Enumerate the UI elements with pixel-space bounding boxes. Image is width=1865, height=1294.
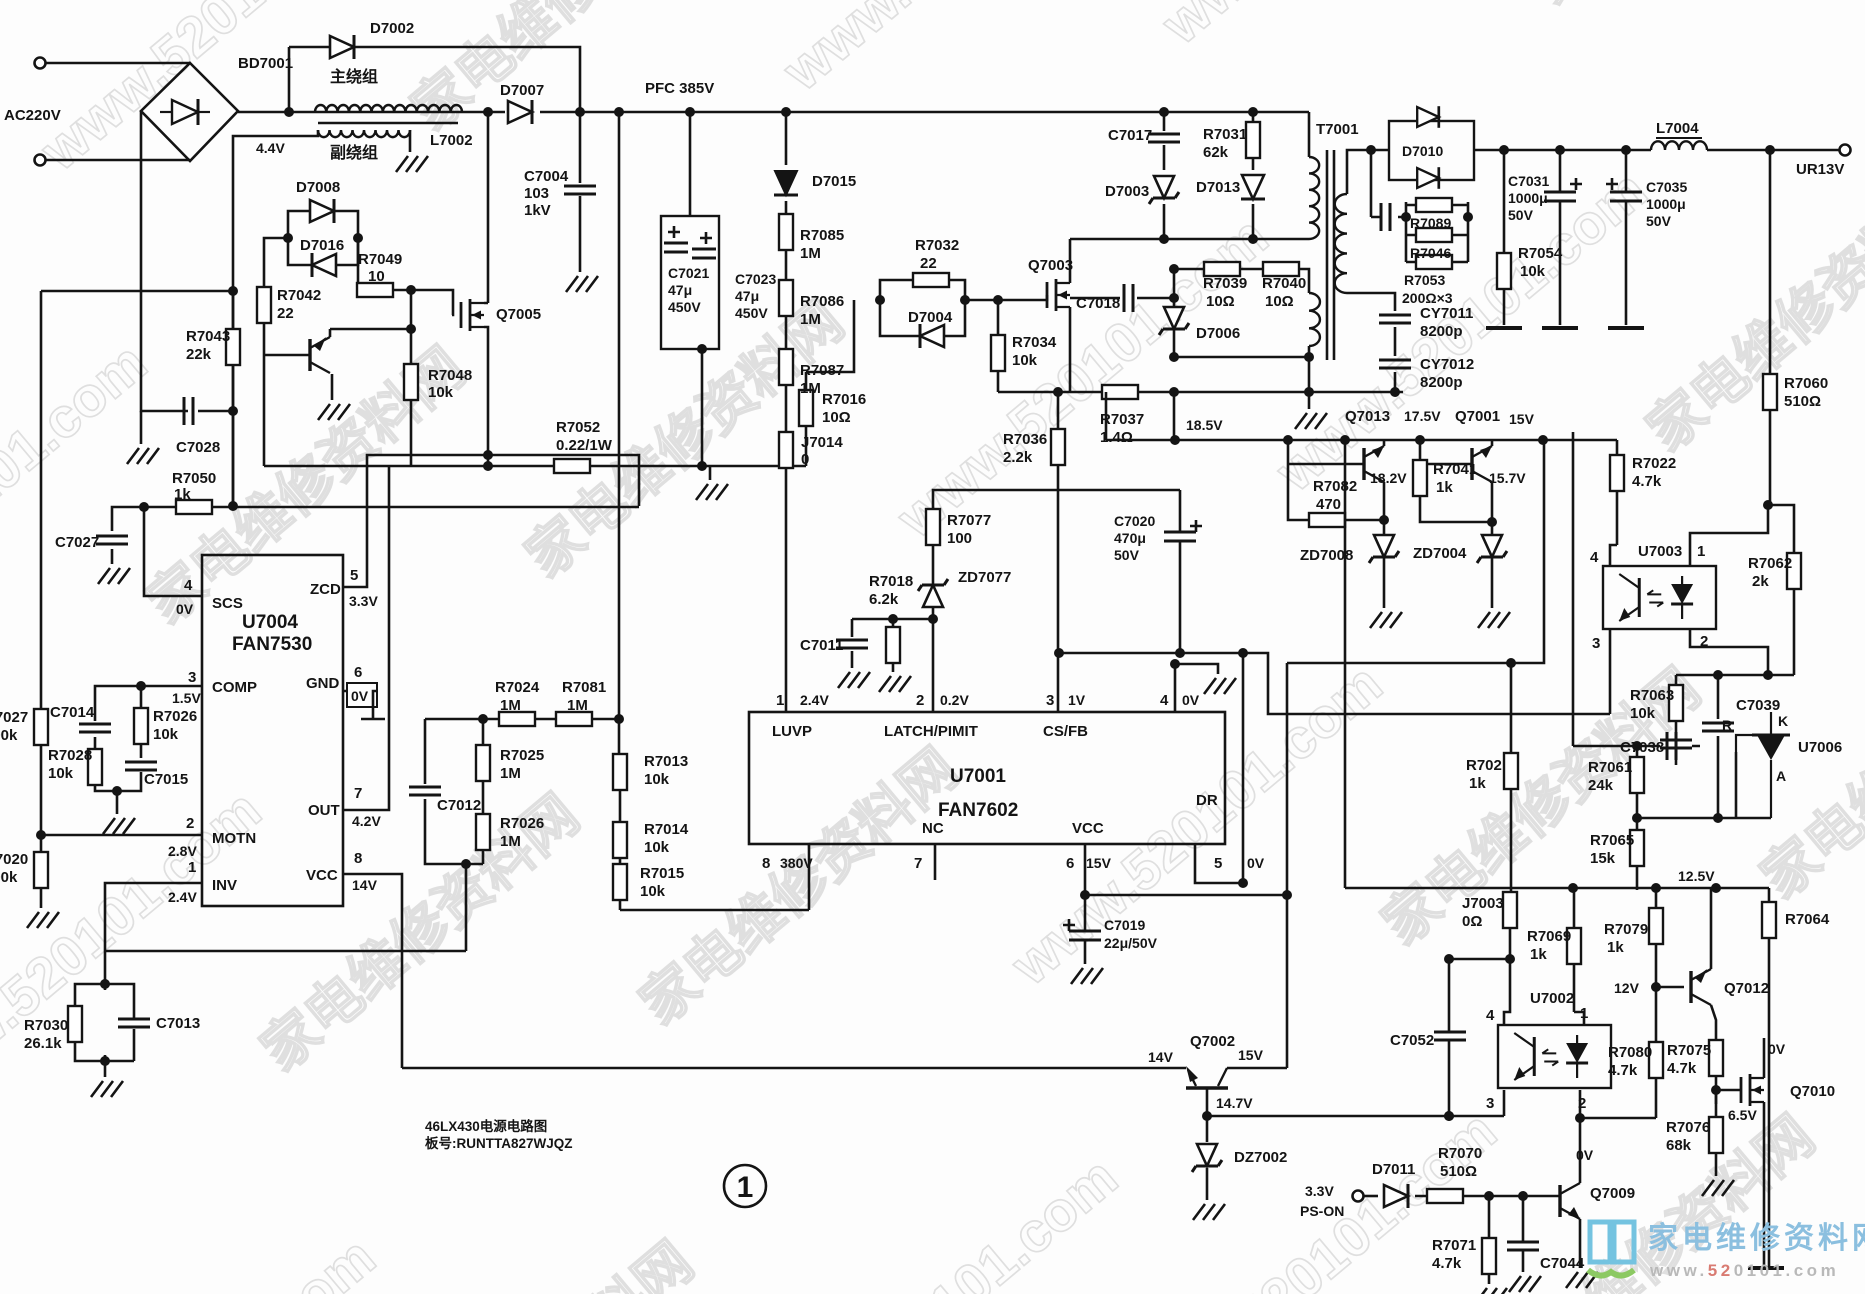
wire left node to R7042 (264, 238, 288, 287)
svg-text:C7017: C7017 (1108, 127, 1152, 144)
svg-text:NC: NC (922, 820, 944, 837)
pin 3 COMP wire (138, 685, 202, 688)
resistor R7041 (1413, 460, 1427, 496)
svg-text:62k: 62k (1203, 144, 1229, 161)
svg-text:4.7k: 4.7k (1667, 1060, 1697, 1077)
svg-text:www.520101.com: www.520101.com (1649, 1261, 1839, 1280)
svg-text:R7085: R7085 (800, 227, 844, 244)
svg-text:C7013: C7013 (156, 1015, 200, 1032)
svg-text:47μ: 47μ (735, 288, 759, 304)
svg-text:DR: DR (1196, 792, 1218, 809)
svg-text:1k: 1k (1607, 939, 1624, 956)
ground C7004 (566, 276, 598, 292)
resistor R7026b (476, 814, 490, 850)
zener ZD7008 (1369, 535, 1399, 563)
wire ZCD path (343, 455, 639, 587)
resistor R7015 (613, 864, 627, 900)
pin 4 stub (180, 595, 202, 598)
resistor R7027 (34, 709, 48, 745)
svg-text:14V: 14V (1148, 1049, 1174, 1065)
svg-text:2: 2 (1578, 1095, 1586, 1112)
svg-text:D7013: D7013 (1196, 179, 1240, 196)
svg-text:Q7003: Q7003 (1028, 257, 1073, 274)
svg-text:板号:RUNTTA827WJQZ: 板号:RUNTTA827WJQZ (425, 1135, 573, 1151)
resistor R7052 (554, 459, 590, 473)
svg-text:17.5V: 17.5V (1404, 408, 1441, 424)
svg-text:R7052: R7052 (556, 419, 600, 436)
svg-text:C7044: C7044 (1540, 1255, 1585, 1272)
svg-text:10k: 10k (48, 765, 74, 782)
svg-text:R7071: R7071 (1432, 1237, 1476, 1254)
svg-text:10k: 10k (644, 839, 670, 856)
svg-text:12.5V: 12.5V (1678, 868, 1715, 884)
svg-text:2: 2 (186, 815, 194, 832)
wire R7075 branch (1715, 1076, 1718, 1104)
label L7004 underline (1656, 137, 1702, 139)
svg-text:0V: 0V (1182, 692, 1200, 708)
resistor R7024 (499, 712, 535, 726)
zener DZ7002 (1192, 1144, 1222, 1172)
capacitor C7039 (1702, 723, 1734, 731)
junction comp node (136, 681, 146, 691)
svg-text:C7023: C7023 (735, 271, 776, 287)
svg-text:CY7011: CY7011 (1420, 305, 1473, 322)
wire gate node down R7048 (410, 290, 413, 364)
svg-text:R7076: R7076 (1666, 1119, 1710, 1136)
svg-text:2.8V: 2.8V (168, 843, 197, 859)
svg-text:0V: 0V (351, 688, 369, 704)
svg-text:VCC: VCC (306, 867, 338, 884)
capacitor C7038 (1660, 740, 1692, 748)
wire left col to ground (140, 411, 143, 444)
diode D7015 zener (774, 171, 798, 195)
ground left column bottom (27, 912, 59, 928)
transistor Q7002 (1186, 1086, 1228, 1089)
MOSFET Q7005 (461, 299, 484, 331)
wire pin3 chain (1059, 653, 1610, 714)
wire R7039 R7040 line (1174, 269, 1309, 293)
svg-text:1: 1 (776, 692, 784, 709)
svg-text:PFC 385V: PFC 385V (645, 80, 714, 97)
svg-text:R7049: R7049 (358, 251, 402, 268)
AC input terminal N (35, 155, 46, 166)
svg-text:J7003: J7003 (1462, 895, 1504, 912)
wire AC L to bridge (46, 62, 190, 65)
wire Q7010 source (1763, 1102, 1766, 1268)
wire aux winding right to ground (409, 130, 412, 152)
wire aux winding left to 4.4V line (233, 130, 318, 506)
resistor R7032 (913, 273, 949, 287)
capacitor C7011 (836, 640, 868, 648)
ground left column (127, 448, 159, 464)
wire pin2 node net (852, 619, 933, 672)
svg-text:1: 1 (737, 1171, 754, 1204)
svg-text:D7008: D7008 (296, 179, 340, 196)
svg-text:C7028: C7028 (176, 439, 220, 456)
svg-text:ZD7004: ZD7004 (1413, 545, 1467, 562)
svg-text:D7002: D7002 (370, 20, 414, 37)
svg-text:8: 8 (354, 850, 362, 867)
diode D7010 lower (1417, 167, 1439, 189)
wire J7003 branch (1504, 928, 1510, 1025)
wire L7002 separator (318, 122, 458, 125)
svg-text:2: 2 (916, 692, 924, 709)
wire startup base (264, 354, 310, 357)
capacitor C7012 (409, 787, 441, 795)
wire C7044 branch (1522, 1196, 1525, 1272)
resistor R7064 (1762, 902, 1776, 938)
junction C7012 bottom (461, 859, 471, 869)
junction secondary top (1366, 145, 1376, 155)
junction pin6 (1080, 890, 1090, 900)
ground DZ7002 (1193, 1204, 1225, 1220)
svg-text:1M: 1M (567, 697, 588, 714)
svg-text:D7016: D7016 (300, 237, 344, 254)
svg-text:Q7013: Q7013 (1345, 408, 1390, 425)
pin 6 gnd stub (343, 691, 385, 719)
svg-text:3: 3 (188, 669, 196, 686)
svg-text:R7024: R7024 (495, 679, 540, 696)
wire D7015 chain (785, 112, 788, 712)
wire U7002 pin3 (1503, 1090, 1506, 1116)
resistor R7082 (1309, 513, 1345, 527)
wire Q7005 drain (484, 112, 488, 303)
wire R7031 branch (1252, 112, 1255, 239)
svg-text:C7027: C7027 (55, 534, 99, 551)
svg-text:6.2k: 6.2k (869, 591, 899, 608)
pin 8 VCC wire (343, 874, 402, 1068)
svg-text:1M: 1M (500, 697, 521, 714)
wire startup collector down (331, 374, 334, 400)
svg-text:R7013: R7013 (644, 753, 688, 770)
wire C7021 box feed (689, 112, 692, 216)
svg-text:2k: 2k (1752, 573, 1769, 590)
svg-text:1.5V: 1.5V (172, 690, 201, 706)
svg-text:LATCH/PIMIT: LATCH/PIMIT (884, 723, 978, 740)
pin 1 INV wire (105, 883, 202, 984)
wire AC N to bridge (46, 159, 190, 162)
wire R7032 D7004 box (880, 280, 1040, 336)
wire Q7009 base line (1415, 1195, 1560, 1198)
resistor R7034 (991, 335, 1005, 371)
svg-text:1: 1 (1580, 1005, 1588, 1022)
svg-text:R7015: R7015 (640, 865, 684, 882)
svg-text:2.4V: 2.4V (800, 692, 829, 708)
svg-text:8200p: 8200p (1420, 374, 1463, 391)
junction aux bottom (1304, 352, 1314, 362)
svg-text:A: A (1776, 768, 1786, 784)
svg-text:R7063: R7063 (1630, 687, 1674, 704)
svg-text:10k: 10k (640, 883, 666, 900)
zener ZD7004 (1477, 535, 1507, 563)
svg-text:C7012: C7012 (437, 797, 481, 814)
svg-text:100k: 100k (0, 869, 18, 886)
junction pin2 node (928, 614, 938, 624)
svg-text:U7002: U7002 (1530, 990, 1574, 1007)
svg-text:1k: 1k (1469, 775, 1486, 792)
svg-text:R7026: R7026 (500, 815, 544, 832)
svg-text:1: 1 (1697, 543, 1705, 560)
wire R7062 branch (1676, 505, 1794, 675)
resistor R7037 (1102, 385, 1138, 399)
wire R7060 branch (1769, 150, 1772, 505)
wire bottom loop y357 (1174, 356, 1309, 359)
junction bus dots (1053, 387, 1063, 397)
wire pin8 stub (808, 844, 811, 910)
junction J7003 node (1505, 954, 1515, 964)
svg-text:10k: 10k (1520, 263, 1546, 280)
capacitor C7015 (125, 762, 157, 770)
svg-text:4.7k: 4.7k (1432, 1255, 1462, 1272)
wire C7020 branch (1179, 490, 1182, 653)
svg-text:R7016: R7016 (822, 391, 866, 408)
svg-text:5: 5 (1214, 855, 1222, 872)
junction pin3 dots (1054, 648, 1064, 658)
ground C7044 (1509, 1276, 1541, 1292)
wire to ground under C7013 (104, 1061, 107, 1077)
wire 12V line (1656, 986, 1684, 989)
resistor R7030 (68, 1006, 82, 1042)
bridge rectifier BD7001 (141, 63, 238, 161)
wire pin6 chain (1085, 844, 1287, 964)
resistor R7075 (1709, 1040, 1723, 1076)
junction gate node (1711, 1085, 1721, 1095)
svg-text:1000μ: 1000μ (1508, 190, 1548, 206)
wire Q7009 emitter (1579, 1219, 1582, 1268)
ground C7019 (1071, 968, 1103, 984)
svg-text:SCS: SCS (212, 595, 243, 612)
svg-text:R7046: R7046 (1410, 245, 1451, 261)
svg-text:D7006: D7006 (1196, 325, 1240, 342)
svg-text:12V: 12V (1614, 980, 1640, 996)
wire snubber bus y392 (998, 391, 1403, 394)
svg-text:ZD7008: ZD7008 (1300, 547, 1353, 564)
svg-text:Q7001: Q7001 (1455, 408, 1500, 425)
wire Q7013 base wire (1288, 463, 1364, 466)
wire Q7005 source (484, 327, 488, 466)
cold ground C7035 (1608, 327, 1644, 329)
wire R7036 branch (1057, 392, 1060, 712)
diode D7010 upper (1417, 106, 1439, 128)
svg-text:47μ: 47μ (668, 282, 692, 298)
ground C7027 (98, 568, 130, 584)
svg-text:R7027: R7027 (0, 709, 28, 726)
transformer T7001 primary (1309, 157, 1319, 239)
svg-text:18.2V: 18.2V (1370, 470, 1407, 486)
wire y663 link (1287, 440, 1544, 663)
svg-text:PS-ON: PS-ON (1300, 1203, 1344, 1219)
junction y1118 (1575, 1113, 1585, 1123)
wire R7048 bottom (410, 400, 413, 466)
wire horizontal feed y=291 (41, 290, 233, 293)
svg-text:4: 4 (1590, 549, 1599, 566)
svg-text:8: 8 (762, 855, 770, 872)
svg-text:46LX430电源电路图: 46LX430电源电路图 (425, 1118, 547, 1134)
svg-text:R7037: R7037 (1100, 411, 1144, 428)
svg-text:200Ω×3: 200Ω×3 (1402, 290, 1453, 306)
resistor R7085 (779, 214, 793, 250)
svg-text:R7048: R7048 (428, 367, 472, 384)
wire ZD7008 (1383, 520, 1386, 608)
svg-text:C7035: C7035 (1646, 179, 1687, 195)
wire C7039 branch (1717, 675, 1720, 818)
junction 675 line (1713, 670, 1723, 680)
svg-text:OUT: OUT (308, 802, 340, 819)
rail dots (1170, 435, 1180, 445)
wire pin4 stub (1175, 664, 1218, 712)
wire U7002 pin2 (1579, 1090, 1582, 1118)
svg-text:10k: 10k (153, 726, 179, 743)
svg-text:主绕组: 主绕组 (330, 67, 378, 86)
wire R7049 branch (357, 238, 360, 290)
svg-text:24k: 24k (1588, 777, 1614, 794)
svg-text:10k: 10k (644, 771, 670, 788)
pin 6 0V box (347, 683, 377, 707)
AC input terminal L (35, 58, 46, 69)
svg-text:R7087: R7087 (800, 362, 844, 379)
resistor R7077 (926, 509, 940, 545)
svg-text:26.1k: 26.1k (24, 1035, 62, 1052)
svg-text:1M: 1M (800, 380, 821, 397)
wire R7064 branch (1768, 888, 1771, 1268)
wire Q7013 upper to rail (1383, 440, 1386, 446)
junction 411,329 (406, 324, 416, 334)
resistor R7036 (1051, 429, 1065, 465)
svg-text:R7043: R7043 (186, 328, 230, 345)
capacitor block C7021 C7023 box (661, 216, 719, 349)
diode D7008 (310, 199, 334, 223)
wire C7014 branch (95, 686, 141, 750)
svg-text:0: 0 (801, 451, 809, 468)
wire pin2 chain (933, 490, 1180, 712)
junction ZD7008 top (1379, 515, 1389, 525)
wire x1573 vertical (1573, 432, 1700, 746)
resistor R7069 (1567, 928, 1581, 964)
transformer T7001 aux winding (1309, 293, 1320, 346)
resistor R7050 (176, 500, 212, 514)
svg-text:C7020: C7020 (1114, 513, 1155, 529)
junction ZD7004 top (1487, 517, 1497, 527)
capacitor C7004 (564, 186, 596, 194)
wire 18.5V drop (1173, 392, 1176, 440)
svg-text:3: 3 (1046, 692, 1054, 709)
wire regulation vertical x1243 (1242, 653, 1245, 883)
resistor R7062 (1787, 553, 1801, 589)
svg-text:4.2V: 4.2V (352, 813, 381, 829)
resistor R7043 (226, 329, 240, 365)
IC U7004 FAN7530 box (202, 555, 343, 906)
svg-text:6: 6 (1066, 855, 1074, 872)
resistor R7020 (34, 852, 48, 888)
svg-text:COMP: COMP (212, 679, 257, 696)
junction C7052 bottom (1444, 1111, 1454, 1121)
svg-text:0V: 0V (1768, 1041, 1786, 1057)
ground R7018 (879, 676, 911, 692)
svg-text:22k: 22k (186, 346, 212, 363)
wire Q7003 drain (1069, 239, 1072, 283)
wire Q7013 lower down (1383, 482, 1386, 520)
wire D7008 D7016 parallel box (288, 211, 358, 265)
svg-text:R7086: R7086 (800, 293, 844, 310)
resistor R7046 (1416, 228, 1452, 242)
svg-text:18.5V: 18.5V (1186, 417, 1223, 433)
junction R702 top (1506, 658, 1516, 668)
junction 12V (1651, 982, 1661, 992)
svg-text:15V: 15V (1086, 855, 1112, 871)
wire C7028 left (141, 111, 188, 411)
resistor R7040 (1263, 262, 1299, 276)
site logo book icon (1588, 1222, 1634, 1276)
svg-text:10Ω: 10Ω (1206, 293, 1235, 310)
svg-text:R7050: R7050 (172, 470, 216, 487)
capacitor C7018 (1124, 284, 1133, 312)
resistor R7014 (613, 822, 627, 858)
svg-text:C7011: C7011 (800, 637, 843, 654)
resistor R7025 (476, 745, 490, 781)
optocoupler U7002 (1498, 1025, 1611, 1088)
svg-text:R7014: R7014 (644, 821, 689, 838)
transistor Q7012 (1691, 969, 1711, 1005)
junction output rail dots (1499, 145, 1509, 155)
svg-text:22: 22 (277, 305, 294, 322)
wire output rail (1474, 149, 1840, 152)
svg-text:R7089: R7089 (1410, 215, 1451, 231)
wire x1345 vertical (1344, 440, 1347, 888)
svg-text:470μ: 470μ (1114, 530, 1146, 546)
resistor R7031 (1246, 122, 1260, 158)
output terminal UR13V (1840, 145, 1851, 156)
svg-text:380V: 380V (780, 855, 813, 871)
svg-text:1k: 1k (1530, 946, 1547, 963)
diode D7007 (508, 100, 532, 124)
wire D7006 vertical (1173, 269, 1176, 357)
svg-text:R7070: R7070 (1438, 1145, 1482, 1162)
resistor R7081 (556, 712, 592, 726)
svg-text:100: 100 (947, 530, 972, 547)
wire R7026 to C7015 (140, 686, 143, 758)
svg-text:1M: 1M (800, 245, 821, 262)
svg-text:BD7001: BD7001 (238, 55, 293, 72)
resistor R7086 (779, 280, 793, 316)
svg-text:VCC: VCC (1072, 820, 1104, 837)
resistor R7060 (1763, 374, 1777, 410)
junction x1345 (1340, 435, 1350, 445)
diode D7013 (1241, 175, 1265, 199)
junction snubber dots (1159, 234, 1169, 244)
svg-text:R7080: R7080 (1608, 1044, 1652, 1061)
svg-text:GND: GND (306, 675, 340, 692)
junction R7030 bottom (100, 1056, 110, 1066)
ground bar Q7010 R7064 (1748, 1267, 1784, 1269)
svg-text:R7022: R7022 (1632, 455, 1676, 472)
capacitor C7044 (1507, 1242, 1539, 1250)
wire R702 branch (1510, 663, 1513, 893)
wire Q7001 lower down (1491, 482, 1494, 522)
svg-text:K: K (1778, 713, 1788, 729)
svg-text:R7069: R7069 (1527, 928, 1571, 945)
wire R7061 branch (1636, 746, 1639, 890)
ground transformer (1295, 413, 1327, 429)
wire CY7011 branch (1347, 293, 1395, 392)
rectifier D7010 box (1389, 121, 1474, 180)
svg-text:0V: 0V (1576, 1147, 1594, 1163)
resistor R7087 (779, 349, 793, 385)
svg-text:C7038: C7038 (1620, 739, 1664, 756)
wire comp net bottom (95, 772, 141, 814)
svg-text:4: 4 (184, 577, 193, 594)
wire R7080 branch (1655, 987, 1658, 1118)
capacitor C7014 (79, 724, 111, 732)
